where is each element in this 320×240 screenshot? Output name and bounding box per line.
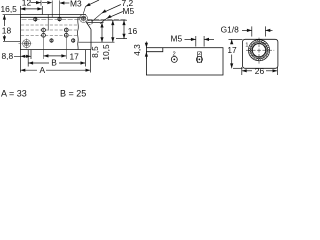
svg-text:M3: M3 xyxy=(70,0,82,8)
G1/8 port: middle thread circle xyxy=(250,42,267,59)
offset hole 1 xyxy=(50,38,53,43)
svg-text:B: B xyxy=(51,58,57,68)
svg-text:17: 17 xyxy=(70,51,80,61)
dimension 4,3 at left end xyxy=(145,42,148,60)
wavy break line xyxy=(76,18,79,50)
port circle row2 col1 xyxy=(42,33,46,37)
svg-text:4,3: 4,3 xyxy=(132,44,142,56)
svg-text:8,5: 8,5 xyxy=(90,46,100,58)
svg-text:1: 1 xyxy=(245,43,248,49)
dimension 8,5 (vertical) xyxy=(100,23,103,43)
second top line (step edge) xyxy=(20,16,86,18)
extension lines xyxy=(19,50,21,73)
dimension 16 (vertical) xyxy=(122,20,125,38)
diagonal cut edge xyxy=(86,21,91,29)
dimension A xyxy=(20,69,90,72)
svg-text:B = 25: B = 25 xyxy=(60,89,86,99)
offset hole 2 xyxy=(72,38,75,43)
leader M5 xyxy=(100,12,123,24)
svg-text:G1/8: G1/8 xyxy=(221,25,239,35)
dashed row y=24.6 xyxy=(21,24,78,26)
dimension 26 xyxy=(242,67,278,75)
centerlines of port xyxy=(246,49,274,51)
outline rounded rectangle xyxy=(243,39,278,68)
centerline through M3 holes extending right to the 16 dimension xyxy=(22,18,127,20)
dashed row y=29.3 xyxy=(21,29,78,31)
dimension 17 (right view) xyxy=(229,39,243,68)
svg-text:2: 2 xyxy=(173,52,176,58)
top edge xyxy=(20,14,86,16)
leader into top-right thread (kinked, cut at image top) xyxy=(83,0,99,14)
svg-text:17: 17 xyxy=(227,45,237,55)
internal column line xyxy=(47,15,49,31)
M3 hole 1 xyxy=(34,17,37,22)
svg-text:16: 16 xyxy=(128,26,138,36)
port circle row1 col1 xyxy=(42,28,46,32)
dimension 8,8 xyxy=(14,55,31,58)
G1/8 port: outer thread circle xyxy=(248,40,269,61)
svg-text:10,5: 10,5 xyxy=(101,44,111,61)
svg-text:A: A xyxy=(40,65,46,75)
svg-text:M5: M5 xyxy=(171,33,183,43)
hidden pilot hole (dashed circle at cut corner) xyxy=(88,20,93,25)
pilot port circle 1 xyxy=(171,56,177,62)
port circle row2 col2 xyxy=(64,33,68,37)
M3 hole 2 xyxy=(58,17,61,22)
vertical centerline dashes through circles xyxy=(26,39,28,49)
left edge xyxy=(19,15,21,50)
step groove at left end xyxy=(146,48,162,52)
leader 7,2 xyxy=(92,5,121,22)
svg-text:8,8: 8,8 xyxy=(2,51,14,61)
port circle row1 col2 xyxy=(64,28,68,32)
outline rectangle xyxy=(146,48,223,75)
dimension G1/8 xyxy=(242,26,273,36)
svg-text:12: 12 xyxy=(22,0,32,7)
pilot port circle 2 xyxy=(196,56,202,62)
svg-text:26: 26 xyxy=(255,66,265,76)
port 2 slot lines xyxy=(196,52,198,64)
G1/8 port: thread hatching xyxy=(249,40,270,61)
svg-text:18: 18 xyxy=(2,25,12,35)
svg-text:2: 2 xyxy=(198,51,201,57)
svg-text:16,5: 16,5 xyxy=(1,4,18,14)
mounting thread (hatched circle) top-right xyxy=(80,14,88,22)
dashed row through mounting circle xyxy=(19,43,34,45)
dimension B xyxy=(28,61,85,64)
G1/8 port: inner circle xyxy=(252,44,265,57)
svg-text:A = 33: A = 33 xyxy=(1,89,27,99)
dimension 10,5 (vertical) xyxy=(111,20,114,42)
dimension M5 over port 2 xyxy=(185,36,215,47)
dimension 17 xyxy=(44,54,67,57)
bottom edge xyxy=(20,49,91,51)
svg-text:M5: M5 xyxy=(123,6,135,16)
dashed row y=34.9 xyxy=(21,34,78,36)
right edge segment xyxy=(90,29,92,49)
mounting thread (hatched circle) bottom-left xyxy=(23,40,31,48)
